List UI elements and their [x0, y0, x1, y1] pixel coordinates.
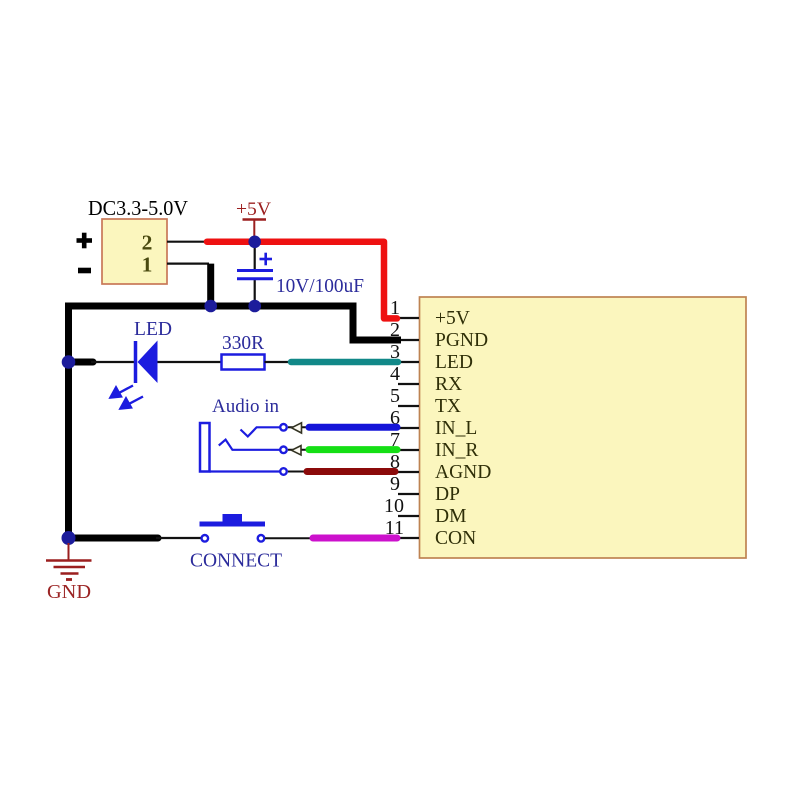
svg-text:IN_R: IN_R: [435, 440, 478, 461]
IC U1 pin stubs: [398, 318, 419, 538]
capacitor C1 polarity plus: [260, 253, 273, 266]
wire LED branch stub: [69, 359, 94, 366]
svg-text:Audio in: Audio in: [212, 396, 279, 417]
svg-text:10V/100uF: 10V/100uF: [276, 276, 364, 297]
svg-text:AGND: AGND: [435, 462, 491, 483]
svg-text:CONNECT: CONNECT: [190, 550, 282, 572]
minus terminal mark: [78, 268, 91, 274]
wire IN_R green net: [309, 446, 397, 453]
svg-text:LED: LED: [435, 352, 473, 373]
wire +5V red net: [207, 242, 397, 319]
arrow marker IN_R: [292, 446, 302, 455]
wire IN_L blue net: [309, 424, 397, 431]
audio jack J2 sleeve terminal circle: [280, 468, 287, 475]
wire AGND darkred net: [307, 468, 395, 475]
capacitor C1 top lead: [254, 242, 256, 270]
plus terminal mark: [77, 233, 93, 249]
svg-text:GND: GND: [47, 581, 91, 603]
svg-text:PGND: PGND: [435, 330, 488, 351]
svg-text:5: 5: [390, 385, 400, 407]
LED D1 light arrow 1: [111, 386, 134, 398]
capacitor C1 bottom lead: [254, 279, 256, 306]
junction dot LED branch: [62, 355, 76, 369]
svg-text:330R: 330R: [222, 332, 265, 354]
wire to button left: [156, 537, 201, 539]
wire connector pin1 to black net: [167, 263, 209, 265]
capacitor C1 plates: [237, 271, 273, 279]
svg-text:1: 1: [142, 253, 153, 277]
svg-text:DP: DP: [435, 484, 460, 505]
wire tip to IN_L: [288, 426, 309, 428]
audio jack J2 tip terminal circle: [280, 424, 287, 431]
svg-text:4: 4: [390, 363, 400, 385]
wire button branch thick: [69, 535, 159, 542]
svg-text:9: 9: [390, 473, 400, 495]
svg-text:+5V: +5V: [435, 308, 470, 329]
wire button to CON: [265, 537, 314, 539]
IC U1 pin numbers: [384, 297, 404, 539]
junction dot cap bottom: [248, 300, 261, 313]
junction dot GND branch: [62, 531, 76, 545]
svg-text:TX: TX: [435, 396, 461, 417]
button SW1 left circle: [202, 535, 209, 542]
IC U1 pin labels: [435, 308, 491, 549]
ground symbol: [46, 543, 92, 580]
power symbol +5V: [243, 220, 267, 242]
button SW1 plunger: [223, 514, 243, 524]
svg-text:+5V: +5V: [236, 199, 271, 220]
button SW1 bar: [200, 522, 266, 527]
wire LED to resistor: [158, 361, 223, 363]
wire CON magenta net: [313, 535, 397, 542]
svg-text:2: 2: [142, 231, 153, 255]
svg-text:DM: DM: [435, 506, 466, 527]
wire connector pin2 to red net: [167, 241, 210, 243]
IC U1 body: [420, 297, 747, 558]
wire ring to IN_R: [288, 449, 309, 451]
audio jack J2 tip contact: [241, 427, 281, 436]
LED D1 cathode bar: [134, 341, 138, 383]
audio jack J2 sleeve contact: [210, 470, 281, 472]
resistor R1 body: [222, 355, 265, 370]
svg-text:CON: CON: [435, 528, 476, 549]
svg-text:RX: RX: [435, 374, 462, 395]
LED D1 triangle: [138, 341, 158, 384]
wire GND thick net (pin1 drop): [207, 264, 214, 306]
svg-text:10: 10: [384, 495, 404, 517]
wire sleeve to AGND: [288, 471, 309, 473]
junction dot pin1 drop: [204, 300, 217, 313]
svg-text:LED: LED: [134, 319, 172, 340]
wire GND thick main run: [69, 306, 402, 538]
arrow marker IN_L: [292, 423, 302, 433]
LED D1 light arrow 2: [121, 397, 144, 409]
audio jack J2 ring terminal circle: [280, 447, 287, 454]
audio jack J2 sleeve body: [200, 423, 210, 472]
wire to LED: [91, 361, 136, 363]
connector J1 body: [102, 219, 167, 284]
button SW1 right circle: [258, 535, 265, 542]
wire resistor to teal net: [265, 361, 293, 363]
audio jack J2 ring contact: [219, 440, 280, 450]
svg-text:DC3.3-5.0V: DC3.3-5.0V: [88, 196, 188, 220]
svg-text:IN_L: IN_L: [435, 418, 477, 439]
junction dot at +5V cap: [248, 236, 261, 249]
wire LED teal net: [291, 359, 398, 366]
